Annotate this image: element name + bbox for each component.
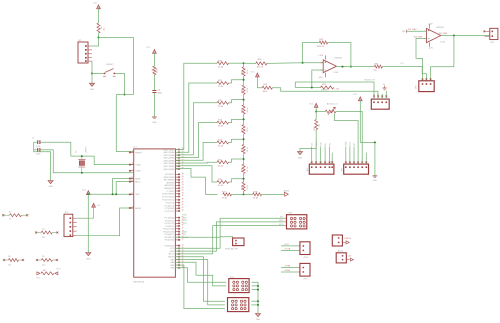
node ladder 2 <box>243 99 245 101</box>
svg-text:150k 1%: 150k 1% <box>317 46 325 48</box>
wire avcc net to IC <box>88 193 133 195</box>
svg-text:1V1: 1V1 <box>400 63 403 65</box>
wire opamp1 in+ bias <box>312 70 323 88</box>
svg-text:R30: R30 <box>258 59 263 61</box>
svg-text:PA6: PA6 <box>170 261 175 264</box>
svg-text:+TONE: +TONE <box>284 266 291 268</box>
svg-text:VCC: VCC <box>82 189 87 191</box>
svg-text:25.4k: 25.4k <box>218 86 224 88</box>
svg-text:PD6(ICP): PD6(ICP) <box>165 226 174 228</box>
svg-text:12.7k: 12.7k <box>247 185 249 190</box>
svg-text:39: 39 <box>182 173 184 175</box>
svg-text:(T0/XCK)PB0: (T0/XCK)PB0 <box>162 194 175 196</box>
svg-text:5k6: 5k6 <box>42 237 46 239</box>
svg-text:32: 32 <box>182 210 184 212</box>
svg-text:PD1(TXD): PD1(TXD) <box>165 240 175 242</box>
supply flag AGND (ladder) <box>284 192 288 196</box>
svg-text:JP3: JP3 <box>416 85 418 89</box>
wire opamp2 output <box>441 35 490 37</box>
wire JP10 feeders <box>281 245 297 247</box>
wire bias rail <box>295 87 320 89</box>
IC U1 right pins <box>175 149 180 151</box>
svg-text:1V5_REF: 1V5_REF <box>414 36 424 38</box>
capacitor C3 100n <box>152 91 156 93</box>
svg-text:25.4k: 25.4k <box>253 197 259 199</box>
resistor R30 (ladder output) <box>244 62 256 64</box>
svg-text:L1: L1 <box>152 68 154 71</box>
svg-text:31: 31 <box>131 193 133 195</box>
svg-text:PC2(TCK): PC2(TCK) <box>165 211 175 213</box>
svg-text:RESET: RESET <box>135 152 142 154</box>
wire R34 to JP3 middle pin <box>382 67 426 81</box>
svg-text:36: 36 <box>182 225 184 227</box>
svg-text:VCC: VCC <box>353 94 358 96</box>
capacitor C2 22pF <box>34 149 37 151</box>
svg-text:+TLOB: +TLOB <box>284 249 291 251</box>
svg-text:32: 32 <box>182 244 184 246</box>
wire bus PA7 <box>175 168 217 194</box>
wire bus PA2 <box>175 103 217 155</box>
op-amp IC2A LM358N <box>323 60 336 73</box>
svg-text:PD3(INT1): PD3(INT1) <box>164 234 174 236</box>
svg-text:12.7k: 12.7k <box>247 167 249 172</box>
svg-text:INT1: INT1 <box>183 223 188 225</box>
wire opamp2 output to JP3 <box>431 36 454 81</box>
svg-text:1V5_REF: 1V5_REF <box>439 33 449 35</box>
junction reset net <box>124 94 126 96</box>
svg-text:(SCK)PB7: (SCK)PB7 <box>165 174 175 176</box>
ground GND1 below connector <box>91 74 93 84</box>
wire bus PA1 <box>175 83 217 152</box>
junction aref <box>112 193 114 195</box>
resistor R24 12.7k (ladder R 4) <box>243 139 245 144</box>
wire JP4 pin1 stub <box>311 147 313 164</box>
svg-text:(ADC3)PA3: (ADC3)PA3 <box>164 159 175 162</box>
svg-text:GND: GND <box>152 122 157 124</box>
wire JP5 pin4 stub <box>357 162 359 164</box>
svg-text:JP5: JP5 <box>341 167 343 171</box>
svg-text:IC1: IC1 <box>134 146 138 148</box>
svg-text:+TLO: +TLO <box>284 244 289 246</box>
svg-text:GND: GND <box>298 157 303 159</box>
svg-text:25.4k: 25.4k <box>218 146 224 148</box>
wire opamp1 output net <box>336 65 374 67</box>
junction avcc 1 <box>87 193 89 195</box>
svg-text:12.7k: 12.7k <box>247 128 249 133</box>
svg-text:10k: 10k <box>319 124 321 127</box>
wire bus PA3 <box>175 123 217 158</box>
wire caps common to ground <box>34 142 51 180</box>
connector JP15 (2x4) <box>228 298 249 312</box>
junction opamp1 output <box>350 66 352 68</box>
svg-text:30: 30 <box>182 176 184 178</box>
svg-text:R25: R25 <box>241 168 243 172</box>
svg-text:R35: R35 <box>314 127 316 131</box>
svg-text:AGND: AGND <box>284 189 290 192</box>
wire JP4 pin4 stub <box>324 147 326 164</box>
power flag VCC (jp2) <box>92 203 96 207</box>
svg-text:CS: CS <box>312 142 314 145</box>
svg-text:AREF: AREF <box>135 177 141 180</box>
svg-text:VCC: VCC <box>146 47 151 49</box>
svg-text:+12V: +12V <box>428 24 433 26</box>
ground GND3 (crystal) <box>48 181 53 184</box>
wire IC to JP14 pin b <box>175 262 227 286</box>
svg-text:PD5(OC1A): PD5(OC1A) <box>163 228 174 231</box>
svg-text:PA7: PA7 <box>170 258 175 261</box>
junction opamp2 output <box>453 35 455 37</box>
svg-text:C1: C1 <box>32 137 35 139</box>
svg-text:PC7(TOSC2): PC7(TOSC2) <box>162 196 174 198</box>
svg-text:(ADC4)PA4: (ADC4)PA4 <box>164 157 175 160</box>
wire ladder bottom to AGND flag <box>244 193 253 195</box>
wire opamp2 in- feedback <box>416 38 427 80</box>
svg-text:MOSI: MOSI <box>279 224 284 226</box>
node ladder 4 <box>243 138 245 140</box>
svg-text:12.7k: 12.7k <box>247 88 249 93</box>
wire bus PA4 <box>175 142 217 160</box>
svg-text:(ADC2)PA2: (ADC2)PA2 <box>164 162 175 165</box>
connector JP12 (2-pin, flags right) <box>332 235 342 246</box>
svg-text:25.4k: 25.4k <box>218 165 224 167</box>
wire into JP7 pin2 (from long net) <box>377 95 379 97</box>
wire connector pin1 to node RST <box>92 38 99 47</box>
junction avcc 2 <box>115 193 117 195</box>
wire jp2 pins to agnd net <box>77 217 89 219</box>
svg-text:35: 35 <box>182 190 184 192</box>
svg-text:(AIN0)PB2: (AIN0)PB2 <box>164 187 175 190</box>
svg-text:VCC: VCC <box>170 248 175 250</box>
svg-text:R4: R4 <box>8 256 11 258</box>
svg-text:U/D: U/D <box>320 142 322 146</box>
junction crystal bottom <box>81 172 83 174</box>
wire VCC bias to R31 <box>257 77 262 88</box>
svg-text:1k2: 1k2 <box>42 264 46 266</box>
svg-text:+12V: +12V <box>318 55 323 57</box>
svg-text:1k: 1k <box>9 218 11 220</box>
svg-text:25.4k: 25.4k <box>218 185 224 187</box>
svg-text:JL/MOS: JL/MOS <box>344 238 352 240</box>
wire avcc vertical 2 <box>116 182 134 195</box>
svg-text:R1: R1 <box>101 26 103 29</box>
wire aref vertical <box>113 179 134 195</box>
svg-text:(MOSI)PB5: (MOSI)PB5 <box>164 180 175 182</box>
wire reset net to IC RESET pin <box>116 94 133 96</box>
svg-text:IC2B: IC2B <box>440 41 445 43</box>
svg-text:-12V: -12V <box>429 48 434 50</box>
svg-text:R21: R21 <box>241 89 243 93</box>
resistor R21 12.7k (ladder R 1) <box>243 80 245 85</box>
svg-text:AGND: AGND <box>168 256 174 259</box>
wire JP11 feeders <box>281 267 297 269</box>
svg-text:22pF: 22pF <box>36 154 41 156</box>
svg-text:IC2A: IC2A <box>333 71 338 74</box>
svg-text:PD7(OC2): PD7(OC2) <box>165 223 175 225</box>
resistor R22 12.7k (ladder R 2) <box>243 100 245 105</box>
ground GND6 (pot) <box>297 152 302 155</box>
svg-text:Alarm: Alarm <box>338 249 344 252</box>
svg-text:Q1: Q1 <box>76 149 78 153</box>
svg-text:AD5220_10: AD5220_10 <box>327 102 339 105</box>
wire VCC to R1 <box>98 9 100 23</box>
svg-text:32: 32 <box>131 177 133 179</box>
node ladder 1 <box>243 79 245 81</box>
svg-text:(MISO)PB6: (MISO)PB6 <box>164 177 175 179</box>
svg-text:GND: GND <box>48 186 53 188</box>
svg-text:-12V: -12V <box>318 77 323 79</box>
svg-text:MISO: MISO <box>279 220 284 222</box>
ground GND5 (bottom) <box>255 314 260 317</box>
svg-text:VCC: VCC <box>36 278 41 280</box>
resistor R20 12.7k (ladder R 0) <box>243 63 245 67</box>
wire C3 to GND2 <box>153 93 155 117</box>
svg-text:VCC: VCC <box>250 71 255 73</box>
svg-text:PC1(SDA): PC1(SDA) <box>165 217 175 220</box>
svg-text:GND: GND <box>256 319 261 321</box>
svg-text:36: 36 <box>182 193 184 195</box>
wire avcc down to gnd <box>87 194 89 252</box>
wire JP5 pin1 stub <box>345 147 347 164</box>
svg-text:AVCC: AVCC <box>169 253 175 256</box>
resistor R26 12.7k (ladder R 6) <box>243 179 245 182</box>
svg-text:16MHz: 16MHz <box>86 147 88 153</box>
wire JP4 pin2 stub <box>315 147 317 164</box>
svg-text:37: 37 <box>182 228 184 230</box>
wire IC to JP15 pin a <box>175 257 225 302</box>
svg-text:12.7k: 12.7k <box>247 108 249 113</box>
svg-text:N$2: N$2 <box>402 31 405 33</box>
svg-text:R20: R20 <box>241 71 243 75</box>
svg-text:AVCC: AVCC <box>135 181 141 184</box>
svg-text:8: 8 <box>132 163 133 165</box>
svg-text:PC0(SCL): PC0(SCL) <box>165 220 175 222</box>
wire C2 to XTAL1 net <box>53 150 133 173</box>
svg-text:+12V: +12V <box>334 88 339 90</box>
resistor R1 10k (reset pullup) <box>97 23 100 33</box>
wire VCC to L1 <box>153 54 155 67</box>
node ladder 3 <box>243 118 245 120</box>
feedback resistor R32 150k <box>303 43 320 63</box>
svg-text:(SS)PB4: (SS)PB4 <box>166 182 175 184</box>
svg-text:38: 38 <box>182 199 184 201</box>
svg-text:SDA: SDA <box>183 231 188 234</box>
svg-text:JP11: JP11 <box>303 278 308 280</box>
wire bus PA5 <box>175 161 217 164</box>
svg-text:10uH: 10uH <box>157 68 159 73</box>
svg-text:RXD: RXD <box>183 215 188 217</box>
node ladder 6 <box>243 178 245 180</box>
svg-text:GND: GND <box>90 89 95 91</box>
svg-text:(AIN1)PB3: (AIN1)PB3 <box>164 184 175 187</box>
svg-text:-TONE: -TONE <box>284 270 291 272</box>
wire ladder output to opamp1 in- <box>267 62 323 65</box>
svg-text:INT0: INT0 <box>183 220 188 222</box>
wire connector pin5 down <box>91 61 93 73</box>
svg-text:PC6(TOSC1): PC6(TOSC1) <box>162 200 174 202</box>
wire JP4 pin6 stub <box>331 153 333 164</box>
wire R31 to long net <box>272 88 378 96</box>
resistor R35 (pot pulldown) <box>315 112 317 120</box>
svg-text:PA4: PA4 <box>170 267 175 270</box>
svg-text:(ADC1)PA1: (ADC1)PA1 <box>164 165 175 168</box>
junction pot left <box>315 111 317 113</box>
svg-text:(ADC6)PA6: (ADC6)PA6 <box>164 151 175 154</box>
svg-text:GND: GND <box>135 194 140 196</box>
svg-text:VCC: VCC <box>56 269 61 271</box>
svg-text:SPK/CALLPH: SPK/CALLPH <box>225 247 238 250</box>
svg-text:1k2: 1k2 <box>8 264 12 266</box>
capacitor C4 (tiny, above JP7) <box>383 88 387 90</box>
svg-text:GND: GND <box>346 141 348 146</box>
wire JP5 pin3 stub <box>353 147 355 164</box>
svg-text:9: 9 <box>132 151 133 153</box>
wire node RST to right vertical <box>99 38 134 95</box>
junctions gnd bus <box>257 285 259 287</box>
wire bias rail up to rs232 feed <box>294 82 296 88</box>
wire JP15 right pins to gnd bus <box>251 300 258 302</box>
junction opamp1 in- <box>302 62 304 64</box>
connector JP11 (2-pin) <box>300 263 310 276</box>
svg-text:W1: W1 <box>329 143 331 146</box>
svg-text:PC5(TDI): PC5(TDI) <box>166 203 175 205</box>
svg-text:R3: R3 <box>42 229 45 231</box>
svg-text:TXD: TXD <box>183 218 188 220</box>
inductor L1 10uH <box>153 66 156 75</box>
wire opamp2 in+ with net label <box>407 30 427 32</box>
svg-text:JP1: JP1 <box>78 40 82 42</box>
wire R35 to GND6 <box>300 130 316 152</box>
svg-text:R26: R26 <box>241 186 243 190</box>
connector JP10 (2-pin) <box>300 242 310 255</box>
svg-text:32: 32 <box>182 181 184 183</box>
wire pot right to header2 pin5 <box>336 112 362 162</box>
svg-text:10k 1%: 10k 1% <box>257 67 264 69</box>
wire VCC to pot <box>315 107 317 111</box>
svg-text:RESET: RESET <box>107 64 115 66</box>
wire IC to JP15 pin b <box>175 260 225 305</box>
wire R1 to node RST <box>98 33 100 38</box>
svg-text:7: 7 <box>132 169 133 171</box>
svg-text:C3: C3 <box>158 90 161 92</box>
svg-text:(T1)PB1: (T1)PB1 <box>167 191 175 193</box>
wire L1 to C3 <box>153 75 155 90</box>
svg-text:RS232-TTL: RS232-TTL <box>365 79 376 81</box>
svg-text:VCC: VCC <box>350 141 352 146</box>
svg-text:12.7k: 12.7k <box>247 70 249 75</box>
wire JP5 pin2 stub <box>349 147 351 164</box>
wire IC to JP8 pin2 <box>175 222 284 251</box>
svg-text:11: 11 <box>131 207 133 209</box>
resistor R25 12.7k (ladder R 5) <box>243 159 245 164</box>
svg-text:100n: 100n <box>158 93 163 95</box>
junction crystal top <box>81 155 83 157</box>
svg-text:JP10: JP10 <box>303 257 309 259</box>
svg-text:25.4k: 25.4k <box>218 106 224 108</box>
crystal Q1 16MHz <box>79 161 84 165</box>
svg-text:PC4(TDO): PC4(TDO) <box>165 205 175 207</box>
wire JP4 pin5 stub <box>329 147 331 164</box>
svg-text:+5V: +5V <box>382 84 386 86</box>
op-amp IC2B power pins <box>428 24 430 28</box>
wire bus PA0 <box>175 63 217 149</box>
svg-text:JP6: JP6 <box>490 42 494 44</box>
svg-text:25.4k: 25.4k <box>222 197 228 199</box>
node ladder 5 <box>243 158 245 160</box>
svg-text:A1: A1 <box>324 143 327 145</box>
svg-text:(ADC5)PA5: (ADC5)PA5 <box>164 154 175 157</box>
svg-text:30: 30 <box>131 180 133 182</box>
ground GND4 <box>86 253 91 256</box>
junction at reset switch <box>91 73 93 75</box>
wire IC to JP14 pin a <box>175 268 227 282</box>
svg-text:LM358N: LM358N <box>436 27 444 29</box>
svg-text:+5V: +5V <box>348 256 352 258</box>
svg-text:PD2(INT0): PD2(INT0) <box>164 237 174 239</box>
svg-text:GND: GND <box>86 258 91 260</box>
svg-text:75k: 75k <box>374 70 378 72</box>
wire JP14 right pins to gnd bus <box>252 282 258 313</box>
svg-text:(ADC7)PA7: (ADC7)PA7 <box>164 148 175 151</box>
svg-text:PA5: PA5 <box>170 264 175 267</box>
svg-text:R18: R18 <box>254 192 259 194</box>
svg-text:R23: R23 <box>241 129 243 133</box>
svg-text:10k: 10k <box>104 28 106 31</box>
wire JP7 pin4 stub up <box>385 91 387 96</box>
wire JP5 pin5 stub <box>361 161 363 163</box>
svg-text:AGND: AGND <box>135 207 141 210</box>
svg-text:SD: SD <box>354 143 356 146</box>
svg-text:33: 33 <box>182 184 184 186</box>
svg-text:12.7k: 12.7k <box>247 147 249 152</box>
wire IC to JP15 pin c <box>175 265 225 309</box>
svg-text:31: 31 <box>182 179 184 181</box>
svg-text:R22: R22 <box>241 109 243 113</box>
svg-text:LM358N: LM358N <box>334 57 342 59</box>
svg-text:39: 39 <box>182 201 184 203</box>
op-amp IC2A power pins <box>324 55 326 59</box>
wire C1 to crystal top net <box>70 142 72 156</box>
wire crystal top to XTAL2 pin <box>71 156 134 165</box>
svg-text:25.4k: 25.4k <box>218 126 224 128</box>
svg-text:JP2: JP2 <box>65 212 69 214</box>
svg-text:XTAL2: XTAL2 <box>135 164 142 167</box>
svg-text:GND: GND <box>373 180 378 182</box>
junction gnd net <box>374 141 376 143</box>
svg-text:25.4k: 25.4k <box>218 66 224 68</box>
svg-text:XTAL1: XTAL1 <box>135 170 142 173</box>
svg-text:1V1_DAC: 1V1_DAC <box>408 28 418 31</box>
svg-text:VCC: VCC <box>93 3 98 5</box>
wire JP4 pin3 stub <box>320 147 322 164</box>
wire switch S1 to reset net <box>115 74 125 95</box>
svg-text:100k: 100k <box>263 91 268 93</box>
svg-text:PD4(OC1B): PD4(OC1B) <box>163 231 174 233</box>
wire IC to JP8 pin3 <box>175 226 284 254</box>
connector JP9 (2-pin speaker) <box>175 237 233 238</box>
svg-text:30: 30 <box>182 204 184 206</box>
op-amp IC2B LM358N <box>427 29 441 43</box>
node RST junction <box>98 37 100 39</box>
wire pot wiper to header2 pin4 <box>335 113 359 161</box>
svg-text:31: 31 <box>182 207 184 209</box>
wire into JP7 pin1 <box>295 82 374 96</box>
IC U1 left pins <box>129 151 134 153</box>
wire IC to JP8 pin1 <box>175 218 284 248</box>
svg-text:MEGA16-A: MEGA16-A <box>134 280 145 283</box>
svg-text:37: 37 <box>182 195 184 197</box>
svg-text:34: 34 <box>182 187 184 189</box>
resistor R23 12.7k (ladder R 3) <box>243 119 245 124</box>
